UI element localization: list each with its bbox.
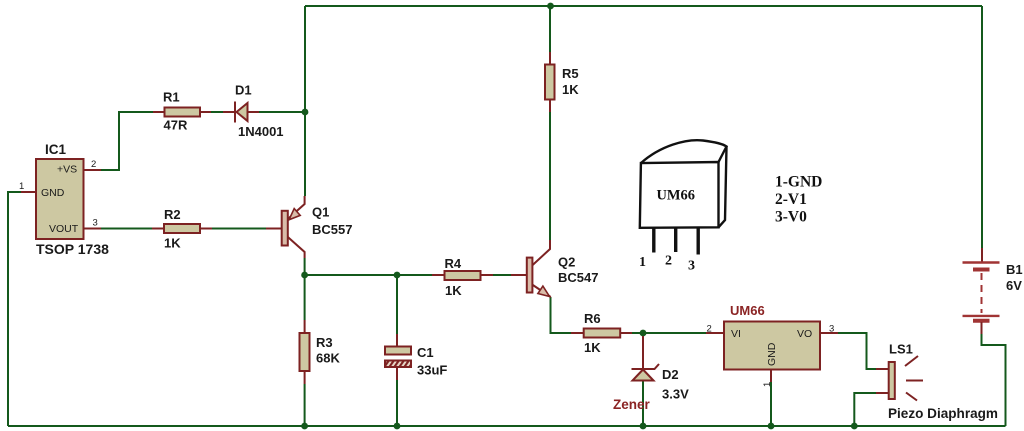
resistor R2 (152, 224, 212, 233)
node junction dot D2 ground (640, 423, 647, 430)
wire D1 to junction (259, 111, 305, 113)
svg-text:D2: D2 (662, 367, 679, 382)
svg-text:1: 1 (639, 255, 646, 270)
wire Q2 emitter down and right to R6 (551, 297, 572, 333)
svg-text:BC547: BC547 (558, 270, 598, 285)
svg-text:R5: R5 (562, 66, 579, 81)
svg-text:3: 3 (829, 324, 834, 335)
svg-text:D1: D1 (235, 83, 252, 98)
svg-text:2: 2 (91, 159, 96, 170)
zener diode D2 (632, 336, 660, 381)
svg-text:1K: 1K (445, 283, 462, 298)
wire node to C1 top (396, 275, 398, 334)
battery B1 (963, 248, 1000, 334)
diode D1 1N4001 (223, 102, 259, 123)
piezo LS1 (876, 356, 923, 401)
UM66 block U-body (706, 322, 838, 383)
svg-text:R2: R2 (164, 207, 181, 222)
svg-text:R1: R1 (163, 90, 180, 105)
svg-text:GND: GND (41, 187, 65, 199)
svg-text:1: 1 (19, 181, 24, 192)
node junction dot UM66 ground (768, 423, 775, 430)
node junction dot R3 ground (301, 423, 308, 430)
svg-text:1N4001: 1N4001 (238, 124, 284, 139)
svg-text:3-V0: 3-V0 (775, 208, 807, 225)
svg-text:2: 2 (707, 324, 712, 335)
svg-text:GND: GND (766, 342, 778, 366)
wire UM66 VO to piezo top (838, 333, 876, 369)
svg-text:2-V1: 2-V1 (775, 191, 807, 208)
svg-text:R4: R4 (445, 256, 462, 271)
transistor Q2 BC547 (511, 240, 551, 297)
wire IC1 pin2 to R1 (101, 112, 153, 170)
node junction dot D1/top (302, 109, 309, 116)
wire left side IC1 pin1 to ground bus (8, 192, 21, 426)
svg-text:68K: 68K (316, 351, 340, 366)
resistor R1 (153, 108, 211, 117)
wire piezo bottom to ground (854, 393, 876, 426)
node junction dot R6/D2/UM66 (640, 330, 647, 337)
wire R5 bottom to Q2 collector (549, 112, 551, 240)
svg-text:1K: 1K (164, 236, 181, 251)
svg-text:1-GND: 1-GND (775, 174, 822, 191)
wire ground bus (8, 425, 1006, 427)
node junction dot top bus at R5 (547, 3, 554, 10)
node junction dot piezo ground (851, 423, 858, 430)
svg-text:VO: VO (797, 328, 812, 340)
resistor R3 (300, 320, 310, 384)
wire C1 bottom to ground (396, 380, 398, 426)
node junction dot Q1 collector row (301, 272, 308, 279)
node junction dot C1 top (394, 272, 401, 279)
wire UM66 GND pin to ground (770, 382, 772, 426)
wire IC1 pin3 to R2 (101, 228, 152, 230)
wire node to R3 top (304, 275, 306, 320)
svg-text:B1: B1 (1006, 262, 1023, 277)
svg-text:C1: C1 (417, 345, 434, 360)
wire D2 bottom to ground (642, 380, 644, 426)
wire R3 bottom to ground (304, 384, 306, 426)
svg-text:UM66: UM66 (657, 188, 696, 204)
svg-text:33uF: 33uF (417, 363, 447, 378)
svg-text:R3: R3 (316, 335, 333, 350)
svg-text:Q1: Q1 (312, 205, 329, 220)
svg-text:VI: VI (731, 328, 741, 340)
svg-text:Piezo Diaphragm: Piezo Diaphragm (888, 405, 998, 421)
svg-text:1K: 1K (562, 82, 579, 97)
wire R2 to Q1 base (212, 228, 266, 230)
svg-text:1K: 1K (584, 340, 601, 355)
wire Q1 collector to node row (304, 258, 306, 275)
svg-text:3: 3 (93, 218, 98, 229)
wire R1 to D1 (211, 111, 223, 113)
svg-text:IC1: IC1 (45, 142, 67, 157)
node junction dot C1 ground (394, 423, 401, 430)
wire left drop from top bus to D1 junction (304, 6, 306, 112)
wire top power bus (305, 5, 982, 7)
resistor R5 (545, 52, 555, 112)
capacitor C1 33uF (385, 334, 411, 380)
svg-text:UM66: UM66 (730, 303, 765, 318)
wire R4 to Q2 base (493, 274, 511, 276)
wire R5 top to bus (549, 6, 551, 52)
svg-text:BC557: BC557 (312, 222, 352, 237)
wire battery negative to ground bus (982, 334, 1006, 426)
wire right side from top bus down to battery (981, 6, 983, 248)
svg-text:TSOP 1738: TSOP 1738 (36, 241, 109, 257)
UM66 3D package drawing (640, 140, 727, 254)
svg-text:47R: 47R (164, 118, 188, 133)
IC1 TSOP1738 body (21, 159, 101, 239)
svg-text:VOUT: VOUT (49, 223, 79, 235)
svg-text:R6: R6 (584, 311, 601, 326)
svg-text:3.3V: 3.3V (662, 387, 689, 402)
resistor R6 (571, 329, 632, 338)
wire node row to R4 (305, 274, 432, 276)
svg-text:LS1: LS1 (889, 342, 913, 357)
resistor R4 (432, 271, 493, 280)
svg-text:6V: 6V (1006, 278, 1022, 293)
svg-text:1: 1 (762, 382, 773, 387)
svg-text:+VS: +VS (57, 164, 77, 176)
svg-text:3: 3 (688, 259, 695, 274)
wire R6 to D2 node (632, 332, 643, 334)
transistor Q1 BC557 (266, 196, 305, 258)
wire D1 junction down toward Q1 emitter (304, 112, 306, 196)
svg-text:2: 2 (665, 254, 672, 269)
svg-text:Q2: Q2 (558, 255, 575, 270)
wire D2 node to UM66 VI (643, 332, 706, 334)
svg-text:Zener: Zener (613, 397, 651, 412)
